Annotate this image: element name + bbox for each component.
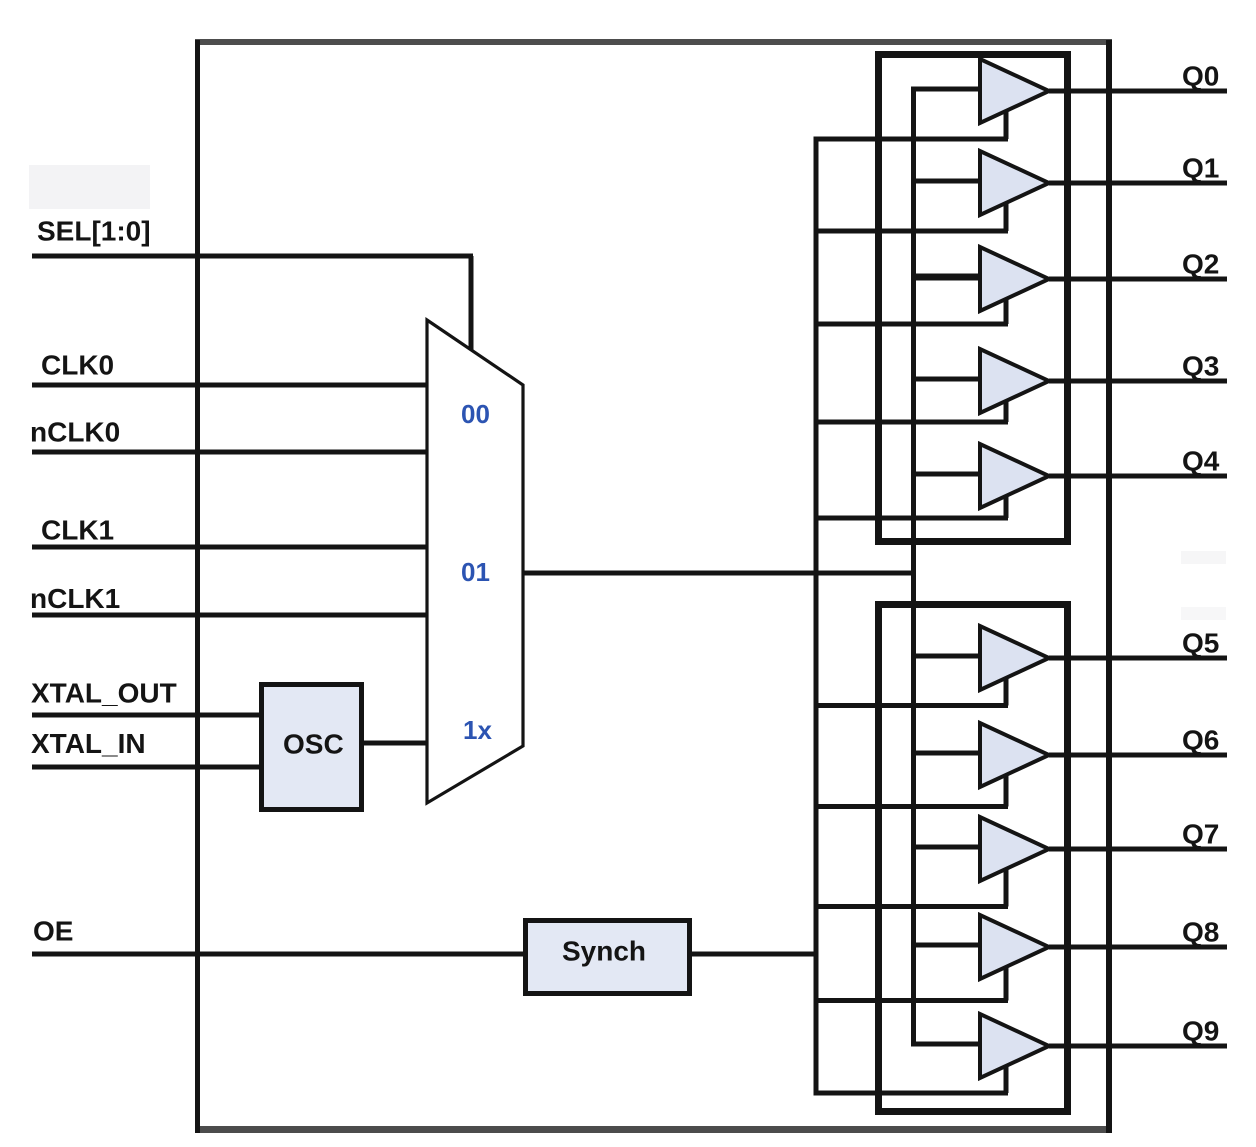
svg-text:Q4: Q4 (1182, 446, 1220, 477)
svg-text:Q1: Q1 (1182, 153, 1219, 184)
svg-text:Q0: Q0 (1182, 61, 1219, 92)
svg-text:Q7: Q7 (1182, 819, 1219, 850)
svg-text:Q8: Q8 (1182, 917, 1219, 948)
svg-text:00: 00 (461, 399, 490, 429)
svg-text:OSC: OSC (283, 729, 344, 760)
svg-text:nCLK1: nCLK1 (30, 583, 120, 614)
svg-text:CLK1: CLK1 (41, 515, 114, 546)
svg-text:CLK0: CLK0 (41, 350, 114, 381)
svg-text:Q6: Q6 (1182, 725, 1219, 756)
svg-text:Q2: Q2 (1182, 249, 1219, 280)
svg-text:1x: 1x (463, 715, 492, 745)
svg-text:Q5: Q5 (1182, 628, 1219, 659)
svg-text:01: 01 (461, 557, 490, 587)
svg-text:OE: OE (33, 916, 73, 947)
svg-text:XTAL_IN: XTAL_IN (31, 728, 146, 759)
svg-text:Q3: Q3 (1182, 351, 1219, 382)
svg-text:Q9: Q9 (1182, 1016, 1219, 1047)
svg-text:XTAL_OUT: XTAL_OUT (31, 678, 177, 709)
svg-text:SEL[1:0]: SEL[1:0] (37, 216, 151, 247)
svg-text:nCLK0: nCLK0 (30, 417, 120, 448)
svg-text:Synch: Synch (562, 936, 646, 967)
